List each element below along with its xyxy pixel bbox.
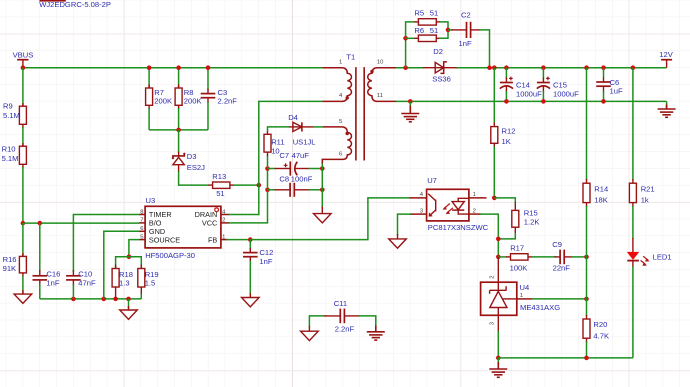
diode D3 ES2J (zener) bbox=[172, 152, 186, 173]
wire R6 left bbox=[406, 37, 415, 39]
svg-text:10: 10 bbox=[271, 146, 279, 155]
wire VBUS column down to R9 bbox=[22, 68, 24, 107]
svg-text:U3: U3 bbox=[146, 196, 156, 205]
wire bottom rail bbox=[498, 357, 633, 359]
node C7 left junction bbox=[265, 166, 270, 171]
svg-text:1k: 1k bbox=[641, 196, 649, 205]
capacitor C12 1nF bbox=[243, 240, 273, 294]
resistor R11 10 bbox=[264, 130, 285, 156]
node drain/T1.4 junction bbox=[257, 183, 262, 188]
ground under R18/R19 rail bbox=[120, 299, 138, 320]
wire R17 to C9 bbox=[531, 256, 556, 258]
node C2 tap junction bbox=[446, 28, 451, 33]
resistor R19 1.5 bbox=[138, 265, 159, 299]
capacitor C10 47nF bbox=[66, 269, 96, 299]
wire U3 VCC to C7/C8 column bbox=[228, 191, 267, 223]
wire VBUS top rail bbox=[23, 67, 323, 69]
svg-text:C16: C16 bbox=[46, 269, 60, 278]
shunt regulator U4 ME431AXG bbox=[481, 257, 561, 332]
T1 secondary winding pins 10-11 bbox=[368, 68, 397, 102]
svg-text:51: 51 bbox=[216, 189, 224, 198]
node R21 top bbox=[631, 65, 636, 70]
ground under C7/C8 bbox=[314, 207, 332, 223]
wire R5/R6 right column bbox=[439, 22, 448, 38]
wire node down to R16 bbox=[22, 223, 24, 257]
node C9/R14 junction bbox=[584, 255, 589, 260]
svg-text:VCC: VCC bbox=[202, 219, 217, 228]
capacitor C3 2.2nF bbox=[201, 68, 238, 130]
node U7 pin1 / R12 junction bbox=[492, 196, 497, 201]
svg-text:1: 1 bbox=[520, 293, 523, 299]
node C2 bottom junction bbox=[487, 65, 492, 70]
svg-text:1nF: 1nF bbox=[459, 39, 472, 48]
svg-text:1.2K: 1.2K bbox=[524, 217, 540, 226]
svg-text:T1: T1 bbox=[346, 53, 355, 62]
node R20 bottom junction bbox=[584, 356, 589, 361]
wire U7 pin2 to column bbox=[480, 214, 499, 257]
svg-text:FB: FB bbox=[208, 235, 217, 244]
svg-text:200K: 200K bbox=[154, 97, 172, 106]
node C10 bottom bbox=[71, 297, 76, 302]
node R12 top junction bbox=[492, 65, 497, 70]
resistor R5 51 bbox=[414, 8, 440, 25]
node VBUS junction bbox=[21, 65, 26, 70]
wire R5/R6 left column bbox=[406, 22, 415, 68]
svg-text:51: 51 bbox=[430, 26, 438, 35]
resistor R21 1k bbox=[629, 179, 654, 207]
svg-text:LED1: LED1 bbox=[653, 252, 672, 261]
node C8 left junction bbox=[265, 188, 270, 193]
resistor R14 18K bbox=[583, 179, 608, 207]
node R17/U4 ref junction bbox=[496, 255, 501, 260]
wire R18/R19 top tie bbox=[116, 257, 142, 269]
wire D3 column bbox=[178, 130, 180, 153]
wire to R20 bbox=[586, 299, 588, 316]
wire R21 to LED1 bbox=[632, 206, 634, 239]
resistor R7 200K bbox=[146, 68, 172, 130]
ground under R16 bbox=[14, 290, 32, 303]
svg-text:R13: R13 bbox=[212, 172, 226, 181]
wire U3 GND pin6 to ground rail bbox=[104, 231, 140, 299]
resistor R16 91K bbox=[3, 253, 27, 277]
svg-text:WJ2EDGRC-5.08-2P: WJ2EDGRC-5.08-2P bbox=[39, 0, 111, 9]
node R18 bottom bbox=[113, 297, 118, 302]
capacitor C8 100nF bbox=[268, 174, 323, 196]
svg-text:D4: D4 bbox=[288, 113, 298, 122]
wire R11 top to D4 row bbox=[268, 127, 290, 131]
svg-text:10: 10 bbox=[377, 60, 384, 66]
wire secondary top rail (T1 pin10 to 12V) bbox=[396, 67, 424, 69]
resistor R6 51 bbox=[414, 26, 440, 41]
ground under C12 bbox=[242, 293, 260, 307]
resistor R18 1.3 bbox=[112, 265, 133, 299]
node D3 top junction bbox=[176, 128, 181, 133]
wire R20 to bottom rail bbox=[586, 341, 588, 358]
svg-text:R6: R6 bbox=[414, 26, 424, 35]
wire R21 column bbox=[632, 68, 634, 180]
svg-text:D2: D2 bbox=[433, 47, 443, 56]
wire U4 pin3 to bottom rail bbox=[497, 331, 499, 358]
wire drain column down to U3 DRAIN bbox=[228, 185, 258, 214]
node R15/pin2 junction bbox=[496, 237, 501, 242]
svg-text:HF500AGP-30: HF500AGP-30 bbox=[145, 251, 195, 260]
svg-text:100nF: 100nF bbox=[291, 174, 313, 183]
diode D4 US1JL bbox=[289, 122, 314, 131]
svg-text:1.3: 1.3 bbox=[119, 279, 130, 288]
wire R13 to drain node bbox=[233, 184, 259, 186]
wire C2 to rail bbox=[480, 30, 490, 68]
node C6 bottom bbox=[601, 99, 606, 104]
node R6 left junction bbox=[403, 36, 408, 41]
wire drain column up to T1 pin 4 bbox=[259, 101, 323, 185]
svg-text:C6: C6 bbox=[610, 78, 620, 87]
node R7 top bbox=[147, 65, 152, 70]
svg-text:C12: C12 bbox=[259, 248, 273, 257]
wire snubber bottom rail bbox=[149, 129, 208, 131]
svg-text:4.7K: 4.7K bbox=[593, 331, 609, 340]
ground (earth) under T1 pin 11 bbox=[401, 101, 419, 121]
wire LED1 to bottom rail bbox=[632, 266, 634, 358]
svg-text:C10: C10 bbox=[78, 269, 92, 278]
ground (earth) at right end of bottom rail bbox=[658, 101, 676, 117]
node C14 bottom bbox=[504, 99, 509, 104]
svg-text:ES2J: ES2J bbox=[187, 163, 205, 172]
wire R14 to C9 node bbox=[586, 206, 588, 257]
svg-text:PC817X3NSZWC: PC817X3NSZWC bbox=[428, 223, 489, 232]
node GND column bottom bbox=[102, 297, 107, 302]
wire R10 down to B/O node bbox=[22, 167, 24, 223]
wire U3 FB row bbox=[227, 239, 251, 241]
svg-text:1K: 1K bbox=[502, 137, 511, 146]
wire U7 pin3 to ground bbox=[398, 214, 412, 235]
wire B/O row to U3 pin 7 bbox=[23, 222, 139, 224]
ground (earth) under C11 right bbox=[367, 326, 385, 341]
svg-text:C14: C14 bbox=[516, 81, 530, 90]
op-amp U3 HF500AGP-30 bbox=[139, 196, 229, 260]
transformer T1 bbox=[322, 53, 396, 164]
svg-text:R17: R17 bbox=[510, 244, 524, 253]
svg-text:C11: C11 bbox=[334, 299, 347, 308]
U7 phototransistor bbox=[428, 194, 436, 217]
capacitor C16 1nF bbox=[33, 223, 61, 299]
U7 LED side bbox=[452, 198, 469, 214]
node SOURCE divider junction bbox=[127, 254, 132, 259]
svg-text:U7: U7 bbox=[427, 176, 437, 185]
wire pin1 node to R15 bbox=[494, 198, 515, 203]
svg-text:47nF: 47nF bbox=[78, 278, 96, 287]
resistor R20 4.7K bbox=[583, 315, 609, 342]
node FB / C12 junction bbox=[248, 237, 253, 242]
svg-text:D3: D3 bbox=[187, 152, 197, 161]
diode D2 SS36 (schottky) bbox=[423, 62, 457, 74]
node pin11 ground junction bbox=[408, 99, 413, 104]
wire U3 SOURCE pin5 to R18/R19 bbox=[129, 240, 139, 257]
wire C2 row bbox=[448, 29, 453, 31]
svg-text:R14: R14 bbox=[594, 184, 608, 193]
svg-text:5.1M: 5.1M bbox=[2, 154, 19, 163]
svg-text:1.5: 1.5 bbox=[145, 279, 156, 288]
svg-text:R10: R10 bbox=[2, 145, 16, 154]
wire T1 pin6 column down bbox=[321, 162, 323, 208]
svg-text:C2: C2 bbox=[461, 10, 471, 19]
svg-text:100K: 100K bbox=[510, 264, 528, 273]
svg-text:2: 2 bbox=[473, 208, 476, 214]
svg-text:1: 1 bbox=[473, 192, 476, 198]
node R8 top bbox=[176, 65, 181, 70]
svg-text:1nF: 1nF bbox=[259, 257, 272, 266]
net flag 12V bbox=[659, 50, 673, 68]
node pin3/ground junction bbox=[496, 356, 501, 361]
svg-text:1: 1 bbox=[222, 234, 225, 240]
resistor R10 5.1M bbox=[2, 143, 27, 168]
node C8 right junction bbox=[320, 188, 325, 193]
svg-text:200K: 200K bbox=[184, 97, 202, 106]
wire U3 TIMER pin8 to C10 bbox=[73, 215, 139, 273]
svg-text:R21: R21 bbox=[641, 184, 655, 193]
capacitor C15 1000uF bbox=[537, 68, 579, 102]
svg-text:R9: R9 bbox=[3, 102, 13, 111]
svg-text:R5: R5 bbox=[414, 8, 424, 17]
capacitor C7 47uF bbox=[268, 151, 323, 175]
node ground stub bbox=[126, 297, 131, 302]
resistor R15 1.2K bbox=[512, 202, 540, 234]
svg-text:C9: C9 bbox=[552, 240, 562, 249]
capacitor C14 1000uF bbox=[500, 68, 542, 102]
svg-text:R16: R16 bbox=[3, 255, 17, 264]
wire D3 to R13 bbox=[179, 171, 209, 185]
node C15 top bbox=[541, 65, 546, 70]
wire C9 node to U4 pin1 node bbox=[586, 257, 588, 299]
node C7 right junction bbox=[320, 166, 325, 171]
wire R12 column bbox=[493, 68, 495, 124]
resistor R12 1K bbox=[491, 123, 516, 148]
svg-text:ME431AXG: ME431AXG bbox=[520, 303, 560, 312]
capacitor C9 22nF bbox=[552, 240, 586, 272]
svg-text:1uF: 1uF bbox=[610, 87, 623, 96]
wire R15 bottom to pin2 column bbox=[498, 233, 515, 239]
wire R16 to ground bbox=[22, 276, 24, 295]
resistor R8 200K bbox=[175, 68, 201, 130]
svg-text:1000uF: 1000uF bbox=[516, 89, 542, 98]
ground (earth) under U4 bbox=[489, 358, 507, 377]
wire R14 column bbox=[586, 68, 588, 180]
svg-text:C7: C7 bbox=[279, 151, 289, 160]
wire R9 to R10 bbox=[22, 127, 24, 147]
node R14 top bbox=[584, 65, 589, 70]
resistor R9 5.1M bbox=[3, 102, 26, 128]
svg-text:51: 51 bbox=[430, 8, 438, 17]
wire C7 node up to R11 bbox=[267, 155, 269, 169]
svg-text:U4: U4 bbox=[520, 283, 530, 292]
svg-text:18K: 18K bbox=[594, 196, 608, 205]
wire R12 to U7 pin 1 node bbox=[493, 146, 495, 198]
svg-text:11: 11 bbox=[377, 93, 383, 99]
svg-text:12V: 12V bbox=[659, 50, 673, 59]
svg-text:2: 2 bbox=[222, 218, 225, 224]
wire C8 to C7 column bbox=[267, 169, 269, 190]
wire U4 pin1 to R14/R20 column bbox=[531, 298, 586, 300]
node U4 pin1/R20 junction bbox=[584, 297, 589, 302]
svg-text:5.1M: 5.1M bbox=[3, 111, 20, 120]
svg-text:2.2nF: 2.2nF bbox=[335, 324, 355, 333]
capacitor C2 1nF bbox=[452, 10, 481, 48]
node R10/R16/B-O junction bbox=[21, 221, 26, 226]
T1 primary winding pins 1-4 bbox=[323, 68, 352, 102]
svg-text:1000uF: 1000uF bbox=[553, 89, 579, 98]
net flag VBUS bbox=[13, 50, 34, 67]
wire secondary bottom rail (T1 pin11) bbox=[396, 100, 667, 102]
capacitor C6 1uF bbox=[596, 68, 623, 102]
svg-text:R15: R15 bbox=[524, 208, 538, 217]
svg-text:47uF: 47uF bbox=[292, 151, 310, 160]
svg-text:R11: R11 bbox=[271, 137, 284, 146]
svg-text:R12: R12 bbox=[502, 126, 516, 135]
svg-text:R19: R19 bbox=[145, 270, 159, 279]
svg-text:SS36: SS36 bbox=[432, 75, 451, 84]
connector J1 WJ2EDGRC-5.08-2P (cut off at top) bbox=[39, 0, 111, 9]
node C6 top bbox=[601, 65, 606, 70]
svg-text:C15: C15 bbox=[553, 81, 567, 90]
svg-text:SOURCE: SOURCE bbox=[149, 235, 180, 244]
wire D4 to T1 pin 5 bbox=[313, 126, 323, 128]
svg-text:R18: R18 bbox=[119, 270, 133, 279]
svg-text:2: 2 bbox=[489, 275, 495, 278]
node C3 top bbox=[206, 65, 211, 70]
node C16 top junction bbox=[38, 221, 43, 226]
resistor R17 100K bbox=[498, 244, 532, 273]
capacitor C11 2.2nF bbox=[309, 299, 375, 333]
wire FB to U7 pin 4 bbox=[250, 198, 410, 240]
svg-text:91K: 91K bbox=[3, 264, 17, 273]
T1 core bbox=[355, 67, 357, 160]
svg-text:VBUS: VBUS bbox=[13, 50, 34, 59]
svg-text:US1JL: US1JL bbox=[293, 137, 316, 146]
svg-text:1nF: 1nF bbox=[46, 278, 59, 287]
resistor R13 51 bbox=[208, 172, 234, 198]
wire bottom-left ground rail bbox=[40, 298, 142, 300]
node C14 top bbox=[504, 65, 509, 70]
optocoupler U7 PC817X3NSZWC bbox=[410, 176, 489, 232]
svg-text:22nF: 22nF bbox=[553, 264, 571, 273]
svg-text:1: 1 bbox=[339, 60, 342, 66]
svg-text:C8: C8 bbox=[279, 174, 289, 183]
node C15 bottom bbox=[541, 99, 546, 104]
U7 light arrows bbox=[443, 204, 453, 215]
ground under U7 pin 3 bbox=[389, 234, 407, 248]
node R5/R6 left junction on rail bbox=[403, 65, 408, 70]
svg-text:R20: R20 bbox=[593, 320, 607, 329]
T1 aux winding pins 5-6 bbox=[322, 127, 351, 164]
LED LED1 bbox=[627, 238, 672, 267]
ground under C11 left bbox=[301, 326, 319, 341]
svg-text:2.2nF: 2.2nF bbox=[218, 97, 238, 106]
svg-text:7: 7 bbox=[140, 218, 143, 224]
